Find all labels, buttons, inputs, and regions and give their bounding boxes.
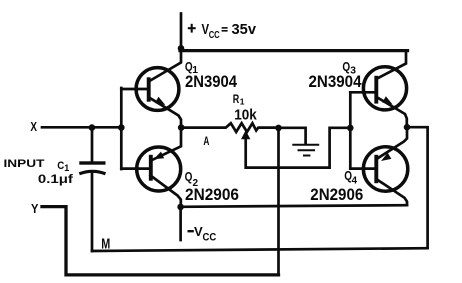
svg-text:2N2906: 2N2906: [310, 185, 363, 204]
svg-text:R: R: [233, 94, 240, 106]
svg-text:M: M: [101, 236, 110, 252]
svg-text:0.1μf: 0.1μf: [38, 172, 74, 186]
svg-text:CC: CC: [203, 231, 217, 243]
svg-text:Q: Q: [185, 169, 193, 184]
svg-text:INPUT: INPUT: [4, 158, 45, 170]
svg-text:CC: CC: [209, 30, 220, 41]
svg-text:2N2906: 2N2906: [185, 185, 239, 204]
svg-text:A: A: [203, 134, 209, 148]
svg-text:10k: 10k: [234, 107, 257, 124]
svg-text:C: C: [57, 160, 64, 172]
svg-text:Q: Q: [342, 59, 350, 74]
svg-text:35v: 35v: [232, 21, 257, 38]
svg-text:Y: Y: [31, 202, 39, 216]
svg-text:1: 1: [240, 96, 245, 106]
svg-text:2N3904: 2N3904: [309, 73, 363, 91]
svg-text:2N3904: 2N3904: [185, 73, 238, 91]
svg-text:X: X: [30, 120, 37, 134]
